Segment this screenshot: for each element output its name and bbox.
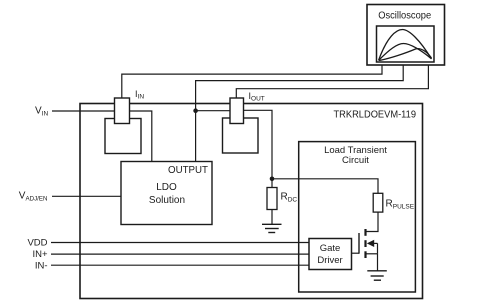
oscilloscope trace 2 (medium curve): [379, 44, 431, 61]
wire IN+ input: [51, 253, 309, 255]
svg-text:Oscilloscope: Oscilloscope: [378, 11, 431, 22]
wire VIN input: [52, 110, 115, 112]
svg-text:VIN: VIN: [35, 106, 48, 118]
current sense jack IIN: [115, 98, 130, 124]
wire Q1 source to ground: [377, 254, 379, 271]
svg-text:RDC: RDC: [281, 192, 298, 204]
svg-text:VADJ/EN: VADJ/EN: [19, 191, 48, 203]
wire gate driver output to Q1 gate: [352, 252, 360, 254]
node OUTPUT junction: [193, 108, 198, 113]
transistor Q1 NMOS: [359, 229, 378, 258]
svg-text:IOUT: IOUT: [249, 91, 265, 103]
resistor RDC: [271, 179, 273, 188]
gate driver box U2: [309, 239, 352, 270]
resistor RPULSE: [373, 193, 383, 212]
svg-text:OUTPUT: OUTPUT: [168, 164, 209, 176]
svg-text:Solution: Solution: [149, 195, 185, 206]
svg-text:IIN: IIN: [135, 89, 144, 101]
oscilloscope trace 3 (shallow ramp): [379, 49, 432, 61]
wire VADJ/EN input: [52, 195, 121, 197]
oscilloscope trace 1 (tall curve): [379, 30, 432, 61]
wire OUTPUT node to oscilloscope channel 2: [196, 65, 404, 162]
wire IIN jack to LDO input: [130, 111, 152, 162]
wire VDD input: [51, 242, 309, 244]
wire RPULSE to Q1 drain: [367, 212, 379, 231]
svg-text:RPULSE: RPULSE: [386, 199, 415, 211]
svg-text:Gate: Gate: [320, 243, 341, 254]
svg-text:IN+: IN+: [32, 249, 48, 260]
svg-text:Circuit: Circuit: [342, 155, 369, 166]
svg-text:VDD: VDD: [27, 238, 47, 249]
connector J2 body (IOUT meter square): [223, 118, 259, 153]
EVM board box TRKRLDOEVM-119: [80, 104, 423, 299]
Load Transient Circuit box: [299, 142, 416, 292]
wire IOUT jack to oscilloscope channel 3: [236, 65, 428, 98]
svg-text:IN-: IN-: [35, 260, 48, 271]
current sense jack IOUT: [230, 98, 244, 124]
svg-text:LDO: LDO: [156, 182, 177, 193]
oscilloscope screen: [377, 26, 435, 62]
ground below Q1: [367, 271, 387, 280]
oscilloscope U3 body: [367, 5, 445, 66]
wire IN- input: [51, 264, 309, 266]
wire OUTPUT node to IOUT jack: [196, 110, 230, 112]
wire IIN jack to oscilloscope channel 1: [122, 65, 382, 98]
ground below RDC: [262, 224, 282, 232]
wire RDC node to RPULSE: [272, 179, 378, 194]
svg-text:Driver: Driver: [317, 255, 342, 266]
connector J1 body (IIN meter square): [105, 119, 141, 154]
wire IOUT jack to RDC node: [244, 110, 273, 179]
svg-text:TRKRLDOEVM-119: TRKRLDOEVM-119: [334, 108, 417, 120]
node RDC junction: [270, 177, 275, 182]
LDO solution box U1: [121, 162, 212, 225]
